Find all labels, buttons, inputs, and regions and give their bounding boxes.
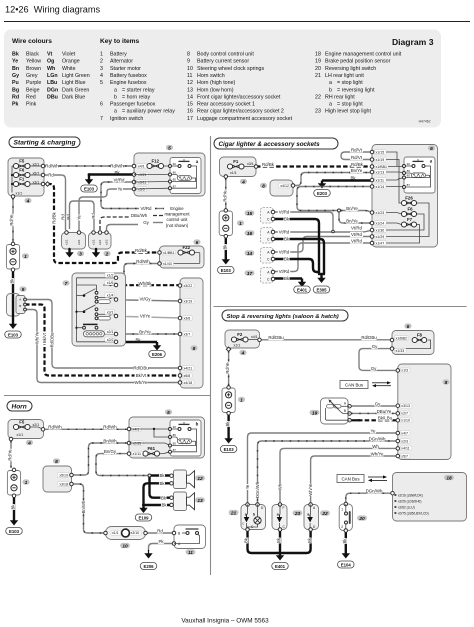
fuse F5 xyxy=(17,164,26,167)
engine fusebox 5 xyxy=(134,153,205,196)
component label 19 xyxy=(310,410,320,415)
pin label x2/1 xyxy=(105,329,115,334)
wire xyxy=(260,339,393,341)
svg-text:13: 13 xyxy=(187,87,193,93)
wire xyxy=(77,295,84,297)
pin label x4/7 xyxy=(400,431,410,436)
svg-text:management: management xyxy=(164,212,190,217)
wire xyxy=(72,443,130,475)
component label 1 xyxy=(22,479,29,484)
svg-text:Engine management control unit: Engine management control unit xyxy=(325,52,402,58)
svg-text:x1/BB1: x1/BB1 xyxy=(163,251,174,255)
wire label Ye xyxy=(245,484,250,490)
wire label Gy xyxy=(370,366,376,371)
wire label Bk xyxy=(283,256,289,261)
ground E206 xyxy=(156,342,158,346)
wire xyxy=(406,166,431,187)
pin xyxy=(256,503,260,507)
pin label x1/4 xyxy=(105,293,115,298)
pin label x1/14 xyxy=(375,184,387,189)
ground label E103 xyxy=(218,267,235,274)
svg-text:87: 87 xyxy=(407,183,411,187)
pin label x5/19 xyxy=(57,473,69,478)
pin xyxy=(169,187,172,190)
svg-text:6: 6 xyxy=(100,102,103,108)
svg-text:= horn relay: = horn relay xyxy=(122,94,150,100)
section title: Starting & charging xyxy=(9,137,80,148)
wire xyxy=(12,165,13,167)
wire xyxy=(116,264,160,278)
svg-text:LBu: LBu xyxy=(47,80,57,86)
svg-text:x3/19: x3/19 xyxy=(184,299,193,303)
svg-text:x2/1: x2/1 xyxy=(33,163,40,167)
svg-text:10: 10 xyxy=(187,66,193,72)
ground E206 xyxy=(148,550,150,554)
svg-text:Brake pedal position sensor: Brake pedal position sensor xyxy=(325,59,391,65)
wire label Rd xyxy=(66,214,71,220)
pin xyxy=(77,231,81,235)
svg-text:x3/13: x3/13 xyxy=(401,404,410,408)
wire label Wh/Ye xyxy=(135,380,148,385)
wire xyxy=(77,327,83,329)
svg-text:4: 4 xyxy=(26,198,30,204)
ground label E103 xyxy=(6,528,23,535)
starter motor 2 xyxy=(89,233,112,250)
svg-text:1: 1 xyxy=(25,480,28,486)
wire xyxy=(293,173,372,186)
pin xyxy=(271,230,275,234)
svg-text:x1/14: x1/14 xyxy=(376,185,385,189)
RH rear light 22 xyxy=(304,505,319,530)
pin xyxy=(224,234,228,238)
high level stop light 23 xyxy=(272,505,287,530)
svg-text:Bn/Ye: Bn/Ye xyxy=(139,329,151,334)
steering wheel clock springs 10 xyxy=(106,527,146,540)
wire label Wh/Ye xyxy=(308,483,313,495)
wire xyxy=(244,166,256,168)
pin xyxy=(396,419,400,423)
component label 17 xyxy=(245,270,255,275)
svg-text:3: 3 xyxy=(79,251,82,257)
pin xyxy=(370,165,374,169)
svg-text:Rd/Ye: Rd/Ye xyxy=(7,449,12,461)
alternator 3 xyxy=(62,233,86,250)
svg-text:1: 1 xyxy=(239,221,242,227)
svg-text:Rd/Bk: Rd/Bk xyxy=(52,211,57,223)
svg-text:E103: E103 xyxy=(224,447,235,452)
svg-text:Bk: Bk xyxy=(135,338,141,343)
svg-text:Rd/Wh: Rd/Wh xyxy=(48,425,62,430)
svg-text:Bk: Bk xyxy=(284,276,290,281)
svg-text:x1/BB2: x1/BB2 xyxy=(396,336,407,340)
svg-text:14: 14 xyxy=(187,94,193,100)
pin xyxy=(370,228,374,232)
wire xyxy=(134,174,170,176)
wire xyxy=(273,230,372,232)
component label 15 xyxy=(245,210,255,215)
svg-text:Ye: Ye xyxy=(77,214,82,219)
svg-text:Reversing light switch: Reversing light switch xyxy=(325,66,376,72)
wire xyxy=(79,189,134,230)
pin xyxy=(24,303,27,306)
component label 20 xyxy=(357,515,367,520)
svg-text:Bk: Bk xyxy=(284,237,290,242)
svg-text:CAN Bus: CAN Bus xyxy=(341,476,360,481)
svg-text:Engine fusebox: Engine fusebox xyxy=(110,80,147,86)
svg-text:Rd/Ye: Rd/Ye xyxy=(222,190,227,202)
ground E401 xyxy=(301,279,303,283)
pin xyxy=(396,412,400,416)
svg-text:x2/26 (LD6/2H0): x2/26 (LD6/2H0) xyxy=(398,500,421,504)
wire label Wh/Ye xyxy=(371,451,384,456)
wire label DBu/Ye xyxy=(376,409,391,414)
svg-text:Violet: Violet xyxy=(62,52,76,58)
pin label x1/29 xyxy=(375,234,387,239)
svg-text:Starting & charging: Starting & charging xyxy=(14,140,76,147)
pin label x1/19 xyxy=(375,157,387,162)
svg-text:x2/3: x2/3 xyxy=(401,439,408,443)
component label 10 xyxy=(120,543,130,548)
svg-text:F: F xyxy=(283,506,285,510)
pin label x4/12 xyxy=(278,183,290,188)
wire label Vt/Rd xyxy=(350,225,363,230)
svg-text:11: 11 xyxy=(187,73,193,79)
wire xyxy=(160,452,170,454)
CAN Bus (upper) xyxy=(340,381,368,389)
wire xyxy=(116,316,180,318)
wire label Rd/Ye xyxy=(9,214,14,226)
svg-text:Wh/Ye: Wh/Ye xyxy=(371,451,384,456)
svg-text:Light Green: Light Green xyxy=(62,73,90,79)
svg-text:Og: Og xyxy=(47,59,54,65)
svg-text:15: 15 xyxy=(187,102,193,108)
pin xyxy=(254,165,258,169)
svg-text:F1: F1 xyxy=(233,159,239,164)
horn switch 11 xyxy=(174,525,206,549)
pin xyxy=(178,374,182,378)
battery 1 xyxy=(222,388,235,413)
svg-text:CAN Bus: CAN Bus xyxy=(345,382,364,387)
wire label Bk/Vt xyxy=(135,373,148,378)
pin xyxy=(41,173,45,177)
wire xyxy=(309,523,311,530)
svg-text:Vt: Vt xyxy=(47,52,53,58)
svg-text:x1/19: x1/19 xyxy=(401,419,410,423)
pin label x2/2 xyxy=(105,337,115,342)
pin xyxy=(127,441,131,445)
pin xyxy=(396,431,400,435)
svg-text:Vt/Rd: Vt/Rd xyxy=(141,206,153,211)
svg-text:Wh: Wh xyxy=(278,483,283,490)
svg-text:Cigar lighter & accessory sock: Cigar lighter & accessory sockets xyxy=(219,141,321,148)
pin label x4/1 xyxy=(132,427,142,432)
wire label Gy xyxy=(374,401,380,406)
wire xyxy=(100,217,130,230)
wire xyxy=(345,524,347,531)
pin xyxy=(114,276,118,280)
svg-text:1: 1 xyxy=(240,397,243,403)
component label 21 xyxy=(229,510,239,515)
pin xyxy=(105,231,109,235)
fuse F6 xyxy=(405,212,413,215)
svg-text:Gy: Gy xyxy=(375,401,381,406)
pin label x3/7 xyxy=(183,332,193,337)
svg-text:B: B xyxy=(19,304,21,308)
wire label Bn/Ye xyxy=(346,206,359,211)
pin xyxy=(170,474,174,478)
svg-text:E109: E109 xyxy=(138,515,149,520)
pin label x4/1 xyxy=(137,164,147,169)
svg-text:x2/7: x2/7 xyxy=(401,412,408,416)
pin label x3/5 xyxy=(137,187,147,192)
svg-text:Rd/Bk: Rd/Bk xyxy=(262,162,275,167)
pin xyxy=(246,503,250,507)
svg-text:16: 16 xyxy=(247,231,253,237)
junction xyxy=(83,294,86,297)
svg-text:Ye: Ye xyxy=(118,187,124,192)
section title: Stop & reversing lights (saloon & hatch) xyxy=(222,310,348,321)
pin xyxy=(370,221,374,225)
wire label DGn/Wh xyxy=(369,436,384,441)
pin xyxy=(178,284,182,288)
component label 13 xyxy=(195,497,205,502)
svg-text:F7: F7 xyxy=(407,217,413,222)
svg-text:x3/1: x3/1 xyxy=(107,311,114,315)
svg-text:19: 19 xyxy=(315,59,321,65)
pin label x1/1 xyxy=(111,530,121,535)
svg-text:Battery fusebox: Battery fusebox xyxy=(110,73,147,79)
pin xyxy=(114,283,118,287)
wire xyxy=(339,410,350,414)
svg-text:Vt/Rd: Vt/Rd xyxy=(279,230,290,235)
svg-text:10: 10 xyxy=(122,543,128,549)
component label 4 xyxy=(239,350,246,355)
wire xyxy=(47,184,160,263)
svg-text:85: 85 xyxy=(407,174,411,178)
svg-text:Bn/Wh: Bn/Wh xyxy=(103,438,117,443)
svg-text:1: 1 xyxy=(24,254,27,260)
body control unit 8 xyxy=(398,364,451,460)
svg-text:Wh/Bk: Wh/Bk xyxy=(139,281,153,286)
wire xyxy=(273,237,372,253)
pin label x3/10 xyxy=(130,530,142,535)
wire label Rd/DBu xyxy=(268,335,283,340)
battery 1 xyxy=(219,211,232,236)
pin xyxy=(170,503,174,507)
pin xyxy=(370,178,374,182)
pin xyxy=(271,217,275,221)
ground E104 xyxy=(345,548,347,554)
svg-text:7: 7 xyxy=(100,116,103,122)
pin xyxy=(291,184,295,188)
svg-text:Battery: Battery xyxy=(110,52,127,58)
wire xyxy=(12,183,13,185)
pin xyxy=(224,209,228,213)
svg-text:Bn/Gy: Bn/Gy xyxy=(104,449,117,454)
wire xyxy=(77,277,117,279)
wire xyxy=(279,505,281,515)
svg-text:Bn/Ye: Bn/Ye xyxy=(351,168,363,173)
ground E109 xyxy=(142,505,144,509)
pin xyxy=(403,172,406,175)
svg-text:x4/18: x4/18 xyxy=(184,381,193,385)
lamp xyxy=(254,517,261,524)
relay coil xyxy=(412,173,426,178)
svg-text:Wh/Ye: Wh/Ye xyxy=(135,380,148,385)
passenger fusebox 6 xyxy=(372,145,438,248)
wire label Vt/Rd xyxy=(278,249,290,254)
component label 8 xyxy=(260,183,267,188)
wire xyxy=(345,504,347,512)
svg-text:a: a xyxy=(329,102,332,108)
wire xyxy=(153,215,163,217)
pin xyxy=(169,450,172,453)
pin label x5/8 xyxy=(183,373,193,378)
ground E103 xyxy=(227,434,229,439)
component label 1 xyxy=(238,397,245,402)
svg-text:30: 30 xyxy=(407,162,411,166)
svg-text:12: 12 xyxy=(197,476,203,482)
pin xyxy=(344,502,348,506)
svg-text:12: 12 xyxy=(187,80,193,86)
svg-text:x1/1: x1/1 xyxy=(16,192,23,196)
pin xyxy=(348,412,352,416)
component label 23 xyxy=(293,510,303,515)
svg-text:E104: E104 xyxy=(341,562,352,567)
wire xyxy=(155,208,164,210)
wire xyxy=(174,534,200,544)
svg-text:x4/11: x4/11 xyxy=(401,447,409,451)
wire xyxy=(98,297,110,299)
svg-text:a: a xyxy=(329,80,332,86)
svg-text:Pink: Pink xyxy=(26,102,37,108)
wire label Wh/Bk xyxy=(139,281,152,286)
svg-text:Bk: Bk xyxy=(159,473,165,478)
wire label Bk xyxy=(161,502,167,507)
svg-text:Bn/Wh: Bn/Wh xyxy=(81,500,86,513)
pin xyxy=(41,428,45,432)
svg-text:High level stop light: High level stop light xyxy=(325,109,371,115)
svg-text:a: a xyxy=(114,87,117,93)
node junction xyxy=(332,230,335,233)
wire xyxy=(70,201,95,230)
svg-text:x1/3: x1/3 xyxy=(401,369,408,373)
pin label x4/21 xyxy=(183,366,195,371)
pin xyxy=(41,164,45,168)
svg-text:RH rear light: RH rear light xyxy=(325,94,355,100)
wire label Gy xyxy=(371,344,377,349)
svg-text:DGn/Wh: DGn/Wh xyxy=(255,481,260,498)
pin xyxy=(158,251,162,255)
fuse F22 xyxy=(182,251,191,254)
svg-text:Bn/Ye: Bn/Ye xyxy=(346,206,358,211)
pin xyxy=(178,366,182,370)
svg-text:4: 4 xyxy=(241,350,245,356)
wire label Vt/Ye xyxy=(139,313,152,318)
wire xyxy=(116,333,180,335)
wire xyxy=(30,174,43,176)
wire label Bk xyxy=(307,538,312,544)
fuse F1 xyxy=(17,182,26,185)
wire xyxy=(134,181,170,184)
component label 1 xyxy=(237,220,244,225)
body control unit 8 xyxy=(43,466,72,492)
svg-text:b: b xyxy=(329,87,332,93)
svg-text:Bk: Bk xyxy=(350,176,356,181)
svg-text:Bk/Vt: Bk/Vt xyxy=(42,332,47,343)
wire xyxy=(43,175,66,230)
pin xyxy=(132,180,136,184)
svg-text:x2/62 (LLU): x2/62 (LLU) xyxy=(398,506,415,510)
svg-text:Body control control unit: Body control control unit xyxy=(197,52,254,58)
svg-text:Rd/Ye: Rd/Ye xyxy=(225,362,230,374)
svg-text:A: A xyxy=(19,297,21,301)
battery fusebox 4 xyxy=(220,157,257,177)
wire label Rd/DBu xyxy=(361,335,376,340)
wire xyxy=(72,484,106,533)
wire xyxy=(273,259,319,272)
wire label Rd/Ye xyxy=(225,362,230,374)
speaker symbol xyxy=(187,493,195,510)
wire xyxy=(358,419,398,421)
svg-text:23: 23 xyxy=(294,511,301,517)
ground E103 xyxy=(13,519,15,521)
wire xyxy=(372,213,401,215)
svg-text:86: 86 xyxy=(173,171,177,175)
pin label x1/2 xyxy=(105,273,115,278)
pin xyxy=(178,332,182,336)
svg-text:DBu: DBu xyxy=(47,94,58,100)
wire label Ye xyxy=(370,428,376,433)
node junction xyxy=(148,474,151,477)
wire label Bk xyxy=(11,504,16,510)
pin label x3/11 xyxy=(137,180,149,185)
svg-text:3: 3 xyxy=(100,66,103,72)
svg-text:8: 8 xyxy=(55,459,58,465)
horn (low tone) 13 xyxy=(174,492,187,511)
wire xyxy=(144,483,172,505)
svg-text:86: 86 xyxy=(407,169,411,173)
svg-text:Beige: Beige xyxy=(26,87,40,93)
pin xyxy=(309,503,313,507)
pin xyxy=(396,447,400,451)
wire xyxy=(172,178,196,182)
pin label x1/19 xyxy=(400,418,412,423)
svg-text:E203: E203 xyxy=(317,191,328,196)
pin xyxy=(271,277,275,281)
svg-text:8: 8 xyxy=(445,380,448,386)
svg-text:20: 20 xyxy=(358,516,365,522)
pin xyxy=(41,182,45,186)
pin xyxy=(271,237,275,241)
wire label Wh/Ye xyxy=(35,332,40,344)
svg-text:5: 5 xyxy=(168,145,171,151)
component label 1 xyxy=(22,253,29,258)
svg-text:Diagram 3: Diagram 3 xyxy=(392,37,434,47)
svg-text:11: 11 xyxy=(188,550,193,556)
junction xyxy=(11,183,13,185)
svg-text:Rd/Wh: Rd/Wh xyxy=(110,164,124,169)
wire xyxy=(394,340,431,349)
svg-text:9: 9 xyxy=(187,59,190,65)
svg-text:LH rear light unit: LH rear light unit xyxy=(325,73,364,79)
wire xyxy=(339,211,372,224)
svg-text:Rd/Ye: Rd/Ye xyxy=(9,214,14,226)
wire xyxy=(172,437,178,440)
wire label Rd/Bk xyxy=(135,248,148,253)
pin xyxy=(271,270,275,274)
pin xyxy=(403,176,406,179)
